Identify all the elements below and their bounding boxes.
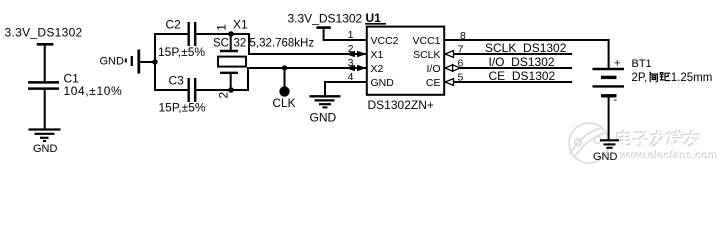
- capacitor C2: [189, 22, 196, 46]
- pin 5 arrow: [445, 79, 454, 86]
- wire C2 to corner: [196, 33, 250, 35]
- wire power to C1: [44, 45, 46, 82]
- svg-text:X1: X1: [371, 49, 384, 61]
- svg-text:X2: X2: [371, 63, 384, 75]
- svg-text:BT1: BT1: [632, 58, 652, 70]
- svg-text:CE: CE: [426, 77, 441, 89]
- wire pin 5 (CE): [444, 81, 572, 83]
- wire pin 7 (SCLK): [444, 53, 572, 55]
- svg-text:15P,±5%: 15P,±5%: [158, 45, 205, 59]
- wire pin 6 (I/O): [444, 67, 572, 69]
- pin 3 arrows: [346, 65, 367, 71]
- watermark text 电子发烧友: [617, 130, 700, 147]
- node CLK: [273, 86, 296, 110]
- svg-text:C2: C2: [166, 18, 182, 32]
- capacitor C3: [189, 78, 196, 102]
- svg-text:CLK: CLK: [273, 96, 296, 110]
- svg-text:1.25mm: 1.25mm: [671, 72, 713, 84]
- svg-text:VCC2: VCC2: [371, 35, 399, 47]
- svg-text:2: 2: [348, 43, 354, 55]
- battery BT1: [593, 57, 625, 106]
- wire gnd port to junction: [140, 61, 155, 63]
- svg-text:104,±10%: 104,±10%: [64, 84, 123, 98]
- GND power port (sideways): [100, 50, 139, 74]
- svg-text:3.3V_DS1302: 3.3V_DS1302: [5, 26, 83, 40]
- ground (under C1): [29, 130, 61, 156]
- ground (pin 4): [310, 96, 341, 124]
- svg-text:4: 4: [348, 71, 354, 83]
- svg-text:GND: GND: [100, 55, 125, 67]
- wire pin 4 to ground: [325, 82, 367, 95]
- watermark text www.elecfans.com: [619, 149, 719, 162]
- svg-text:3: 3: [348, 57, 354, 69]
- pin 6 arrows: [445, 65, 460, 71]
- svg-text:GND: GND: [371, 77, 395, 89]
- svg-text:www.elecfans.com: www.elecfans.com: [620, 150, 719, 162]
- wire CLK stem: [284, 68, 286, 87]
- watermark logo circle: [569, 123, 609, 163]
- junction dot crystal bottom: [228, 87, 234, 93]
- wire corner up to pin 3 row: [248, 68, 260, 90]
- svg-text:X1: X1: [233, 18, 248, 32]
- wire C1 to ground: [44, 89, 46, 129]
- svg-text:1: 1: [348, 29, 354, 41]
- svg-text:2: 2: [217, 92, 231, 99]
- svg-text:-: -: [614, 94, 618, 106]
- wire vertical column C2/C3: [154, 34, 156, 90]
- svg-text:DS1302ZN+: DS1302ZN+: [368, 98, 434, 112]
- capacitor C1: [28, 82, 59, 88]
- svg-text:32: 32: [234, 37, 247, 49]
- pin 7 arrow: [445, 51, 454, 58]
- svg-text:15P,±5%: 15P,±5%: [159, 101, 206, 115]
- svg-text:I/O_DS1302: I/O_DS1302: [489, 55, 555, 69]
- pin 2 arrows: [346, 51, 367, 57]
- svg-text:C3: C3: [169, 74, 185, 88]
- wire pin 2 row: [249, 53, 367, 55]
- wire C3 to corner: [196, 89, 249, 91]
- svg-text:+: +: [614, 57, 620, 69]
- wire to C2: [154, 33, 188, 35]
- svg-text:5,32.768kHz: 5,32.768kHz: [250, 37, 315, 49]
- svg-text:CE_DS1302: CE_DS1302: [489, 69, 556, 83]
- svg-text:VCC1: VCC1: [412, 35, 440, 47]
- svg-text:SCLK_DS1302: SCLK_DS1302: [485, 41, 567, 55]
- IC U1 designator: [365, 11, 386, 25]
- ground (battery): [593, 140, 619, 163]
- svg-text:1: 1: [215, 24, 229, 31]
- svg-text:SCLK: SCLK: [413, 49, 440, 61]
- IC U1 body: [367, 27, 444, 95]
- wire power to pin 1: [324, 28, 367, 40]
- svg-text:I/O: I/O: [426, 63, 440, 75]
- junction dot crystal top: [228, 31, 234, 37]
- svg-text:GND: GND: [310, 111, 337, 125]
- svg-text:SC: SC: [213, 37, 229, 49]
- svg-text:3.3V_DS1302: 3.3V_DS1302: [288, 11, 363, 25]
- wire pin 8 to battery: [444, 40, 609, 69]
- svg-text:GND: GND: [593, 151, 618, 163]
- junction dot: [152, 59, 157, 64]
- wire corner down to pin 2 row: [249, 33, 260, 54]
- junction dot CLK: [282, 65, 287, 70]
- svg-text:U1: U1: [366, 11, 382, 25]
- svg-text:2P,: 2P,: [632, 72, 648, 84]
- wire to C3: [154, 89, 188, 91]
- power flag 3.3V_DS1302 (at U1): [288, 11, 363, 29]
- svg-text:GND: GND: [33, 143, 58, 155]
- power flag 3.3V_DS1302 (left): [5, 26, 83, 46]
- wire pin 3 row: [248, 67, 367, 69]
- wire battery to ground: [608, 96, 610, 140]
- crystal X1: [218, 34, 246, 90]
